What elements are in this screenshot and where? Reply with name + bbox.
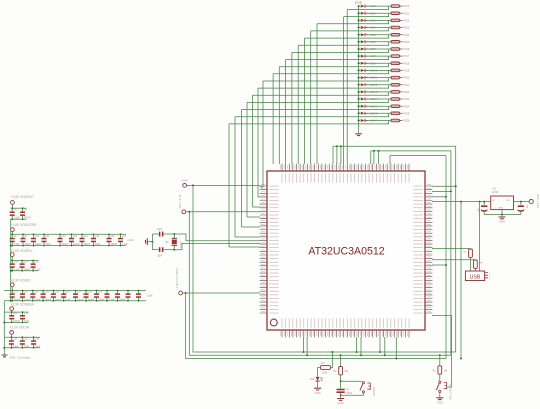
wire row 3 to column	[317, 20, 389, 23]
svg-text:C21: C21	[13, 291, 18, 294]
wire row 10 to column	[273, 70, 389, 73]
junction	[32, 260, 34, 262]
wire to IC1 top pin x=337	[336, 146, 338, 164]
junction	[379, 351, 381, 353]
svg-text:100nF: 100nF	[110, 243, 117, 246]
junction	[43, 245, 45, 247]
capacitor C6	[10, 238, 15, 242]
capacitor C28	[84, 293, 89, 297]
resistor R17	[391, 55, 402, 58]
junction	[33, 336, 35, 338]
wire crystal loop left	[152, 234, 154, 250]
junction	[33, 233, 35, 235]
svg-text:PX19: PX19	[403, 70, 410, 73]
svg-text:LED3: LED3	[370, 20, 377, 23]
junction	[520, 201, 522, 203]
wire R1 to GND? bus	[331, 352, 333, 368]
resistor R20	[391, 76, 402, 79]
LED D3	[359, 19, 369, 22]
wire IC2 gnd pin	[501, 210, 503, 215]
connector X1 USB body	[465, 271, 484, 281]
capacitor C31	[20, 315, 25, 319]
junction	[445, 196, 447, 198]
junction	[384, 354, 386, 356]
LED D1	[359, 5, 369, 8]
junction reset pullup	[340, 354, 342, 356]
resistor R2 (reset pull-up)	[339, 367, 343, 375]
wire row 8 to column	[286, 56, 389, 59]
wire cap stub	[71, 234, 73, 238]
wire row 11 LED to resistor	[369, 77, 391, 79]
wire cap stub	[81, 234, 83, 238]
svg-text:LED2: LED2	[370, 12, 377, 15]
junction	[483, 201, 485, 203]
svg-text:LED6: LED6	[370, 41, 377, 44]
svg-text:+3.3V VDDIO: +3.3V VDDIO	[11, 279, 32, 283]
svg-text:C27: C27	[77, 291, 82, 294]
junction POE row 7	[358, 48, 360, 50]
switch S1 (RESET button)	[360, 382, 370, 393]
ground (cap banks)	[2, 355, 8, 357]
svg-text:C15: C15	[95, 235, 100, 238]
junction	[22, 207, 24, 209]
resistor R15	[391, 41, 402, 44]
capacitor C14	[80, 238, 85, 242]
LED D6	[359, 40, 369, 43]
junction POE row 11	[358, 77, 360, 79]
capacitor C29	[94, 293, 99, 297]
junction crystal gnd	[152, 241, 154, 243]
wire row 17 to column	[229, 121, 389, 124]
wire cap stub	[33, 337, 35, 340]
svg-text:100nF: 100nF	[119, 299, 126, 302]
junction	[450, 190, 452, 192]
capacitor C23	[30, 293, 35, 297]
wire cap stub	[11, 298, 13, 301]
wire to IC1 top pin x=390	[389, 156, 391, 164]
svg-text:LED4: LED4	[370, 27, 377, 30]
wire cap stub	[11, 261, 13, 264]
svg-text:LED5: LED5	[370, 34, 377, 37]
wire row 13 to column	[253, 92, 389, 95]
junction	[360, 354, 362, 356]
junction	[11, 300, 13, 302]
junction	[395, 358, 397, 360]
wire column x=242 down	[241, 110, 243, 227]
wire bottom bus GND	[193, 351, 456, 353]
svg-text:1uF: 1uF	[526, 205, 528, 209]
resistor R23	[391, 98, 402, 101]
junction	[21, 347, 23, 349]
wire right vertical VBUS feed	[460, 202, 462, 359]
junction	[81, 233, 83, 235]
junction	[42, 300, 44, 302]
wire row 11 to column	[263, 78, 389, 81]
wire cap stub	[32, 291, 34, 294]
LED D4	[359, 26, 369, 29]
wire row 5 LED to resistor	[369, 34, 391, 36]
junction	[32, 290, 34, 292]
junction	[59, 233, 61, 235]
svg-text:100nF: 100nF	[77, 299, 84, 302]
LED D9	[359, 62, 369, 65]
junction	[93, 233, 95, 235]
wire cap stub	[42, 298, 44, 301]
svg-text:C18: C18	[13, 261, 18, 264]
wire net 1V8 top horizontal	[390, 155, 446, 157]
wire cap stub	[85, 298, 87, 301]
svg-text:PX12: PX12	[403, 20, 410, 23]
wire row 4 LED to resistor	[369, 27, 391, 29]
wire IC1 bottom pin x=304 to bus	[303, 337, 305, 352]
wire row 10 LED to resistor	[369, 69, 391, 71]
wire +1.8V to IC1 left pin	[183, 292, 261, 294]
svg-text:LED16: LED16	[370, 112, 378, 115]
junction	[75, 300, 77, 302]
wire D2 to gnd	[317, 381, 319, 388]
wire IC1 right pin to gnd	[432, 264, 446, 266]
junction POE row 17	[358, 120, 360, 122]
resistor R10	[391, 5, 402, 8]
wire R1 to LED D2	[318, 368, 321, 377]
junction	[117, 300, 119, 302]
wire bus to R2	[340, 355, 342, 366]
junction	[22, 218, 24, 220]
wire cap stub	[108, 242, 110, 246]
svg-text:GND: GND	[314, 391, 320, 395]
wire cap stub	[21, 337, 23, 340]
junction DFU pullup	[439, 354, 441, 356]
wire cap stub	[75, 298, 77, 301]
junction	[303, 351, 305, 353]
svg-text:100nF: 100nF	[45, 299, 52, 302]
wire cap stub	[96, 298, 98, 301]
wire S1 to gnd node	[341, 393, 364, 395]
junction	[22, 322, 24, 324]
resistor R4 (USB D-)	[469, 249, 473, 257]
wire C35 to gnd rail	[483, 211, 485, 215]
junction POE row 9	[358, 62, 360, 64]
junction	[53, 290, 55, 292]
wire row 17 LED to resistor	[369, 120, 391, 122]
capacitor	[136, 293, 141, 297]
wire cap stub	[22, 291, 24, 294]
resistor R12	[391, 19, 402, 22]
svg-text:100nF: 100nF	[13, 320, 20, 323]
wire IC1 pin to DFU button	[432, 316, 452, 387]
svg-text:C22: C22	[24, 291, 29, 294]
wire row 4 to column	[311, 28, 389, 31]
junction	[11, 218, 13, 220]
svg-text:100nF: 100nF	[83, 243, 90, 246]
junction	[11, 311, 13, 313]
svg-text:PX26: PX26	[403, 120, 410, 123]
junction	[11, 347, 13, 349]
capacitor C2	[159, 232, 164, 237]
capacitor C3	[159, 247, 164, 252]
wire column x=258 down	[257, 88, 259, 197]
LED D8	[359, 55, 369, 58]
svg-text:PX25: PX25	[403, 112, 410, 115]
resistor R19	[391, 69, 402, 72]
capacitor C27	[73, 293, 78, 297]
junction	[3, 321, 5, 323]
wire cap stub	[10, 345, 12, 348]
wire +3.3V VDDANA top rail	[4, 311, 28, 313]
svg-text:10uF: 10uF	[147, 295, 153, 298]
svg-text:C10: C10	[35, 235, 40, 238]
junction	[331, 351, 333, 353]
junction	[378, 150, 380, 152]
wire C1 to gnd	[340, 393, 342, 398]
junction	[85, 300, 87, 302]
junction	[21, 336, 23, 338]
junction	[63, 290, 65, 292]
wire to IC1 left pin y=227	[242, 226, 261, 228]
junction	[117, 290, 119, 292]
svg-text:C13: C13	[73, 235, 78, 238]
svg-text:LED11: LED11	[370, 77, 378, 80]
wire cap stub	[33, 345, 35, 348]
wire row 7 to column	[292, 49, 389, 52]
svg-text:+1.8V From MCU: +1.8V From MCU	[175, 268, 179, 290]
ground (regulator)	[499, 217, 506, 224]
wire +1.8V VDDOUT bottom rail	[11, 218, 27, 220]
resistor R26	[391, 119, 402, 122]
LED D7	[359, 47, 369, 50]
junction	[43, 233, 45, 235]
svg-text:22pF: 22pF	[157, 255, 163, 258]
junction	[11, 270, 13, 272]
wire row 12 to column	[258, 85, 389, 88]
resistor R13	[391, 26, 402, 29]
wire IC2 out	[514, 201, 530, 203]
wire row 7 LED to resistor	[369, 48, 391, 50]
junction	[340, 145, 342, 147]
LED D11	[359, 76, 369, 79]
wire cap stub	[32, 261, 34, 264]
svg-text:D18: D18	[310, 379, 315, 381]
svg-text:470nF: 470nF	[24, 217, 31, 220]
wire bottom bus 1V8	[186, 358, 446, 360]
junction	[21, 260, 23, 262]
IC1 pin-1 marker	[270, 319, 277, 326]
junction POE row 5	[358, 34, 360, 36]
wire column to IC1 top pin x=292	[291, 52, 293, 164]
wire cap stub	[11, 208, 13, 212]
junction	[32, 300, 34, 302]
junction POE row 4	[358, 27, 360, 29]
svg-text:GND: GND	[498, 207, 503, 209]
wire cap stub	[11, 242, 13, 246]
wire +1.8V VDDPLL bottom rail	[11, 270, 39, 272]
junction	[11, 260, 13, 262]
wire +1.8V VDDOUT top rail	[11, 207, 27, 209]
capacitor C10	[31, 238, 36, 242]
capacitor C8	[10, 212, 15, 216]
wire cap stub	[138, 291, 140, 294]
wire cap stub	[138, 298, 140, 301]
wire +1.8V VDDOUT stub	[11, 204, 13, 208]
svg-text:LED12: LED12	[370, 84, 378, 87]
wire cap stub	[22, 312, 24, 315]
wire IC1 right pin to VCC loop	[432, 190, 451, 192]
wire cap stub	[59, 242, 61, 246]
capacitor C18	[10, 263, 15, 267]
junction	[445, 264, 447, 266]
junction	[96, 300, 98, 302]
svg-text:PX11: PX11	[403, 12, 410, 15]
capacitor C16	[107, 238, 112, 242]
wire row 13 LED to resistor	[369, 91, 391, 93]
junction POE row 1	[358, 5, 360, 7]
svg-text:C11: C11	[45, 235, 50, 238]
resistor R14	[391, 33, 402, 36]
svg-text:100nF: 100nF	[55, 299, 62, 302]
wire cap stub	[22, 216, 24, 220]
svg-text:C26: C26	[65, 291, 70, 294]
wire cap stub	[22, 319, 24, 322]
svg-text:IC2: IC2	[492, 187, 497, 191]
capacitor C17	[118, 238, 123, 242]
svg-text:+1.8V VDDPLL: +1.8V VDDPLL	[11, 249, 34, 253]
svg-text:C28: C28	[87, 291, 92, 294]
svg-text:C31: C31	[24, 312, 29, 315]
svg-text:C16: C16	[110, 235, 115, 238]
wire cap stub	[71, 242, 73, 246]
svg-text:PX23: PX23	[403, 98, 410, 101]
capacitor C25	[51, 293, 56, 297]
wire +1.8V VDDCORE top rail	[11, 233, 126, 235]
wire to IC1 left pin y=237	[235, 236, 260, 238]
svg-text:100nF: 100nF	[24, 269, 31, 272]
wire R5 to USB	[474, 268, 476, 271]
wire row 8 LED to resistor	[369, 55, 391, 57]
svg-text:PX16: PX16	[403, 48, 410, 51]
wire IC1 bottom pin x=380 to bus	[379, 337, 381, 352]
wire left vertical VCC	[188, 212, 190, 355]
wire cap stub	[10, 337, 12, 340]
X1 pins	[485, 273, 488, 278]
wire to C2	[153, 233, 159, 235]
svg-text:C20: C20	[34, 261, 39, 264]
capacitor	[115, 293, 120, 297]
junction	[10, 270, 12, 272]
wire IC1 right pin to 1V8 loop	[432, 196, 446, 198]
wire cap stub	[127, 298, 129, 301]
junction POE row 10	[358, 69, 360, 71]
wire cap stub	[11, 319, 13, 322]
capacitor C7	[21, 238, 26, 242]
junction	[106, 300, 108, 302]
wire cap stub	[22, 298, 24, 301]
svg-text:C23: C23	[34, 291, 39, 294]
wire +3.3V VDDANA stub	[11, 311, 13, 313]
wire C36 to gnd rail	[520, 211, 522, 215]
junction	[22, 290, 24, 292]
wire VBUS to regulator IC2	[432, 201, 491, 203]
svg-text:12MHz: 12MHz	[179, 241, 181, 248]
wire cap stub	[108, 234, 110, 238]
ground (LED D2)	[314, 388, 321, 395]
wire cap stub	[22, 234, 24, 238]
svg-text:10nF: 10nF	[45, 243, 51, 246]
supply GND (left of IC1)	[183, 184, 187, 188]
svg-text:C30: C30	[13, 312, 18, 315]
svg-text:10nF: 10nF	[24, 320, 30, 323]
junction	[455, 185, 457, 187]
svg-text:22pF: 22pF	[157, 228, 163, 231]
wire cap stub	[33, 242, 35, 246]
wire reset node to C1	[340, 381, 342, 388]
junction	[22, 311, 24, 313]
capacitor C13	[69, 238, 74, 242]
wire row 6 to column	[298, 42, 388, 45]
resistor R18	[391, 62, 402, 65]
svg-text:PX20: PX20	[403, 77, 410, 80]
junction	[75, 290, 77, 292]
svg-text:100nF: 100nF	[61, 243, 68, 246]
wire net GND top horizontal	[333, 145, 456, 147]
svg-text:PX14: PX14	[403, 34, 410, 37]
svg-text:100nF: 100nF	[73, 243, 80, 246]
svg-text:10uF: 10uF	[35, 346, 41, 349]
IC1 pin name band	[269, 173, 423, 328]
supply +3.3V VDDANA	[10, 307, 14, 311]
junction POE row 13	[358, 91, 360, 93]
wire IC1 bottom pin x=396 to bus	[395, 337, 397, 359]
ground (POE array)	[355, 134, 362, 136]
wire left cap-bank gnd vertical (upper)	[10, 219, 12, 301]
junction	[11, 290, 13, 292]
wire column to IC1 top pin x=273	[272, 74, 274, 164]
wire C3 to crystal bottom	[164, 249, 175, 251]
svg-text:C34: C34	[35, 338, 40, 341]
voltage regulator IC2 body	[491, 196, 514, 210]
wire +3.3V VDDANA bottom rail	[4, 321, 28, 323]
wire USB VBUS up to regulator	[479, 202, 481, 271]
wire cap stub	[21, 261, 23, 264]
svg-text:PX17: PX17	[403, 55, 410, 58]
junction	[479, 201, 481, 203]
LED D16	[359, 112, 369, 115]
svg-text:USB: USB	[470, 275, 481, 281]
wire +1.8V VDDPLL top rail	[11, 260, 39, 262]
wire cap stub	[33, 234, 35, 238]
wire R2 down	[340, 375, 342, 381]
junction	[108, 233, 110, 235]
junction	[81, 245, 83, 247]
junction VCC	[188, 211, 190, 213]
capacitor C20	[31, 263, 36, 267]
wire USB D+ from IC1	[432, 259, 475, 261]
junction POE row 2	[358, 12, 360, 14]
svg-text:PX24: PX24	[403, 105, 410, 108]
wire cap stub	[120, 234, 122, 238]
svg-text:10nF: 10nF	[95, 243, 101, 246]
junction	[85, 290, 87, 292]
svg-text:2.2uF: 2.2uF	[35, 269, 42, 272]
wire cap stub	[52, 298, 54, 301]
wire column to IC1 top pin x=317	[316, 24, 318, 164]
wire R4 to USB	[470, 257, 472, 271]
wire to C3	[153, 249, 159, 251]
crystal Q1	[172, 234, 177, 250]
svg-text:VCC +3.3V: VCC +3.3V	[178, 194, 182, 208]
capacitor C32	[9, 340, 14, 344]
wire column x=263 down	[262, 81, 264, 187]
junction	[138, 290, 140, 292]
